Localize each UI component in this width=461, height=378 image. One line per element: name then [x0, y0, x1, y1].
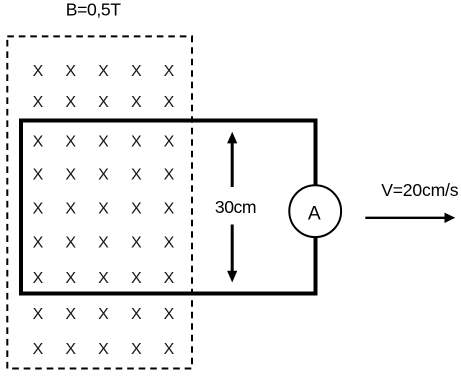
svg-text:X: X: [164, 200, 175, 217]
dimension arrow down (30cm): [231, 225, 234, 272]
conducting loop wire (thick rectangle): [21, 121, 316, 294]
field X marks row 1: [33, 63, 175, 80]
svg-text:X: X: [131, 235, 142, 252]
svg-text:V=20cm/s: V=20cm/s: [381, 180, 459, 200]
svg-text:X: X: [33, 166, 44, 183]
svg-text:X: X: [98, 341, 109, 358]
field X marks row 3: [33, 133, 175, 150]
svg-text:X: X: [164, 133, 175, 150]
svg-text:X: X: [33, 63, 44, 80]
svg-text:X: X: [33, 133, 44, 150]
svg-text:B=0,5T: B=0,5T: [66, 0, 121, 19]
svg-text:X: X: [131, 63, 142, 80]
svg-text:X: X: [131, 341, 142, 358]
svg-text:X: X: [164, 270, 175, 287]
svg-text:X: X: [164, 235, 175, 252]
svg-text:X: X: [65, 270, 76, 287]
svg-text:X: X: [33, 306, 44, 323]
svg-text:X: X: [131, 200, 142, 217]
svg-text:X: X: [33, 200, 44, 217]
svg-text:X: X: [65, 306, 76, 323]
svg-text:A: A: [308, 204, 321, 225]
svg-text:X: X: [131, 133, 142, 150]
svg-text:X: X: [164, 306, 175, 323]
field X marks row 6: [33, 235, 175, 252]
svg-text:X: X: [33, 270, 44, 287]
svg-text:X: X: [98, 63, 109, 80]
svg-text:X: X: [65, 341, 76, 358]
ammeter A (circle): [289, 185, 341, 237]
svg-text:X: X: [131, 94, 142, 111]
svg-text:X: X: [33, 341, 44, 358]
field X marks row 7: [33, 270, 175, 287]
svg-text:X: X: [98, 200, 109, 217]
svg-text:X: X: [98, 270, 109, 287]
svg-text:X: X: [98, 133, 109, 150]
svg-text:X: X: [98, 235, 109, 252]
svg-text:X: X: [131, 270, 142, 287]
svg-text:X: X: [65, 166, 76, 183]
svg-text:X: X: [65, 235, 76, 252]
field X marks row 5: [33, 200, 175, 217]
field X marks row 9: [33, 341, 175, 358]
field X marks row 4: [33, 166, 175, 183]
svg-text:30cm: 30cm: [215, 197, 256, 217]
svg-text:X: X: [164, 166, 175, 183]
svg-text:X: X: [98, 306, 109, 323]
svg-text:X: X: [131, 166, 142, 183]
svg-text:X: X: [131, 306, 142, 323]
svg-text:X: X: [33, 94, 44, 111]
field X marks row 8: [33, 306, 175, 323]
magnetic field region (dashed rectangle): [7, 36, 192, 368]
svg-text:X: X: [164, 341, 175, 358]
svg-text:X: X: [33, 235, 44, 252]
svg-text:X: X: [65, 133, 76, 150]
svg-text:X: X: [164, 94, 175, 111]
field X marks row 2: [33, 94, 175, 111]
svg-text:X: X: [98, 166, 109, 183]
svg-text:X: X: [65, 63, 76, 80]
svg-text:X: X: [65, 200, 76, 217]
svg-text:X: X: [65, 94, 76, 111]
dimension arrow up (30cm): [231, 143, 234, 188]
velocity arrow: [365, 217, 445, 219]
svg-text:X: X: [164, 63, 175, 80]
svg-text:X: X: [98, 94, 109, 111]
